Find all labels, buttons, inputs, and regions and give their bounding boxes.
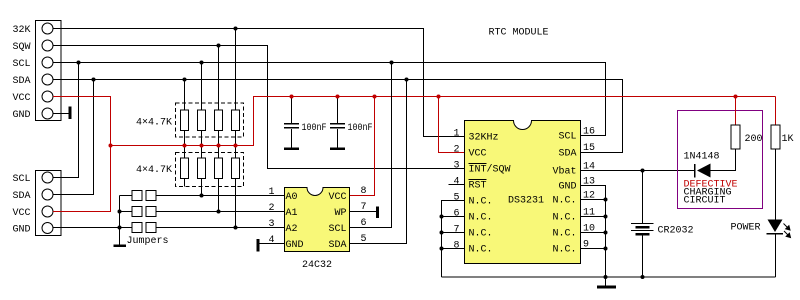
svg-text:5: 5 xyxy=(361,234,367,245)
wire DS3231 NC pin7 stub xyxy=(442,232,465,234)
wire jumper row1 to 24C32 A0 xyxy=(156,195,285,197)
diode D1 cathode bar xyxy=(694,164,696,178)
LED D2 triangle xyxy=(768,220,783,233)
svg-text:9: 9 xyxy=(583,240,589,251)
ground bar C1 xyxy=(284,148,299,151)
resistor RN1-B leads xyxy=(201,63,203,146)
svg-text:SCL: SCL xyxy=(12,59,30,70)
svg-text:1: 1 xyxy=(268,187,274,198)
resistor RN1-C leads xyxy=(218,46,220,146)
svg-text:4: 4 xyxy=(453,177,459,188)
svg-text:VCC: VCC xyxy=(328,192,346,203)
svg-text:1N4148: 1N4148 xyxy=(684,152,720,163)
resistor RN2-B body xyxy=(198,158,206,179)
wire jumper row2 to 24C32 A1 xyxy=(156,211,285,213)
svg-text:1K: 1K xyxy=(782,134,794,145)
wire jumper row2 left xyxy=(120,211,133,213)
resistor RN2-A leads xyxy=(184,146,186,187)
svg-text:32K: 32K xyxy=(12,25,30,36)
svg-text:100nF: 100nF xyxy=(348,123,373,134)
capacitor C1 plates xyxy=(284,123,299,125)
resistor RN2-A body xyxy=(181,158,189,179)
wire SCL net rail xyxy=(53,63,606,136)
jumper pads xyxy=(132,191,156,233)
svg-text:7: 7 xyxy=(453,225,459,236)
svg-text:Vbat: Vbat xyxy=(552,166,576,178)
svg-text:A2: A2 xyxy=(286,224,298,235)
svg-text:N.C.: N.C. xyxy=(469,213,493,224)
capacitor C1 top lead xyxy=(291,97,293,124)
svg-text:GND: GND xyxy=(558,182,576,193)
wire 24C32 GND stub xyxy=(260,243,285,245)
IC U1 left pin numbers xyxy=(453,129,459,252)
svg-text:INT/SQW: INT/SQW xyxy=(469,164,511,176)
svg-text:N.C.: N.C. xyxy=(552,245,576,256)
svg-text:DS3231: DS3231 xyxy=(508,196,544,207)
resistor RN2-D leads xyxy=(235,146,237,228)
resistor R1K body xyxy=(771,125,780,149)
ground bar 24C32 GND terminator xyxy=(257,239,260,252)
LED D2 bottom lead xyxy=(775,234,777,277)
svg-text:GND: GND xyxy=(12,225,30,236)
wire 24C32 SDA riser xyxy=(350,80,407,244)
svg-text:N.C.: N.C. xyxy=(469,245,493,256)
IC U2 right pin labels xyxy=(328,192,346,251)
svg-text:VCC: VCC xyxy=(12,208,30,219)
svg-text:VCC: VCC xyxy=(469,149,487,160)
svg-text:POWER: POWER xyxy=(731,223,761,234)
svg-text:32KHz: 32KHz xyxy=(469,133,499,144)
svg-text:10: 10 xyxy=(583,224,595,235)
wire J2 SDA riser xyxy=(53,80,94,195)
svg-text:6: 6 xyxy=(453,209,459,220)
connector J2 labels xyxy=(12,174,30,236)
wire DS3231 NC pin10 stub xyxy=(581,232,606,234)
capacitor C1 bottom lead xyxy=(291,129,293,148)
svg-text:VCC: VCC xyxy=(12,93,30,104)
junction dots black xyxy=(77,27,645,280)
capacitor C2 plates xyxy=(330,123,345,125)
resistor RN1-D body xyxy=(232,110,240,131)
svg-text:SDA: SDA xyxy=(558,149,576,160)
IC U1 right pin labels xyxy=(552,132,576,256)
svg-text:N.C.: N.C. xyxy=(469,197,493,208)
resistor RN2-C body xyxy=(215,158,223,179)
svg-text:1: 1 xyxy=(453,129,459,140)
IC U1 notch xyxy=(514,120,531,122)
LED D2 cathode bar xyxy=(767,233,784,234)
connector J2 pin circles xyxy=(42,172,53,234)
svg-text:2: 2 xyxy=(268,203,274,214)
resistor RN1-C body xyxy=(215,110,223,131)
ground symbol bottom rail xyxy=(605,277,607,286)
wire DS3231 right GND/NC bus xyxy=(581,186,606,278)
connector J1 pin circles xyxy=(42,23,53,119)
svg-text:RST: RST xyxy=(469,181,487,192)
ground symbol under jumpers xyxy=(114,245,127,248)
svg-text:13: 13 xyxy=(583,177,595,188)
wire DS3231 NC pin6 stub xyxy=(442,216,465,218)
wire 24C32 SCL riser xyxy=(350,63,392,228)
ground bar J1 GND xyxy=(69,107,72,120)
svg-text:CIRCUIT: CIRCUIT xyxy=(684,196,726,207)
svg-text:14: 14 xyxy=(583,162,595,173)
svg-text:SCL: SCL xyxy=(12,174,30,185)
svg-text:SDA: SDA xyxy=(328,240,346,251)
overline RST xyxy=(469,179,487,180)
wire DS3231 NC pin12 stub xyxy=(581,199,606,201)
wire 24C32 WP stub xyxy=(350,211,377,213)
LED D2 arrows xyxy=(784,224,791,238)
battery B1 bottom lead xyxy=(642,236,644,278)
svg-text:2: 2 xyxy=(453,145,459,156)
overline INT xyxy=(469,163,487,164)
svg-text:11: 11 xyxy=(583,208,595,219)
resistor network RN1 dashed box xyxy=(176,103,244,137)
wire SQW net to INT/SQW pin3 xyxy=(53,46,465,169)
svg-text:24C32: 24C32 xyxy=(302,260,332,271)
resistor network RN2 dashed box xyxy=(176,153,244,187)
svg-text:SDA: SDA xyxy=(12,76,30,87)
svg-text:5: 5 xyxy=(453,193,459,204)
wire DS3231 left NC bus xyxy=(442,201,465,278)
wire jumper ground bus xyxy=(119,196,121,245)
resistor RN2-B leads xyxy=(201,146,203,196)
wire VCC red pull-up rail xyxy=(111,97,776,146)
svg-text:RTC MODULE: RTC MODULE xyxy=(489,28,549,39)
svg-text:8: 8 xyxy=(453,241,459,252)
svg-text:16: 16 xyxy=(583,127,595,138)
svg-text:GND: GND xyxy=(12,110,30,121)
wire J2 GND to jumpers row3 xyxy=(53,227,132,229)
IC U2 notch xyxy=(308,187,323,189)
IC U2 24C32 body xyxy=(285,188,350,252)
svg-text:15: 15 xyxy=(583,143,595,154)
resistor RN1-B body xyxy=(198,110,206,131)
svg-text:4×4.7K: 4×4.7K xyxy=(136,118,172,129)
svg-text:N.C.: N.C. xyxy=(552,229,576,240)
svg-text:7: 7 xyxy=(361,202,367,213)
diode D1 triangle xyxy=(697,164,711,178)
resistor R1K top lead red xyxy=(775,97,777,126)
svg-text:CR2032: CR2032 xyxy=(658,226,694,237)
wire J1 GND stub xyxy=(53,113,69,115)
wire DS3231 NC pin11 stub xyxy=(581,216,606,218)
wire SDA net rail xyxy=(53,80,623,153)
wire bottom ground rail xyxy=(442,276,776,278)
svg-text:N.C.: N.C. xyxy=(552,196,576,207)
wire VCC red drop to 24C32 pin8 xyxy=(350,97,375,196)
svg-text:4: 4 xyxy=(268,235,274,246)
wire VCC red drop to DS3231 pin2 xyxy=(439,97,465,153)
defective charging circuit box xyxy=(678,111,763,209)
ground bar 24C32 WP terminator xyxy=(376,207,379,219)
svg-text:3: 3 xyxy=(453,161,459,172)
svg-text:N.C.: N.C. xyxy=(469,229,493,240)
svg-text:200: 200 xyxy=(745,134,763,145)
wire VCC red net (J1 to J2) xyxy=(53,97,111,212)
resistor RN1-A body xyxy=(181,110,189,131)
wire jumper row3 to 24C32 A2 xyxy=(156,227,285,229)
svg-text:A1: A1 xyxy=(286,208,298,219)
svg-text:A0: A0 xyxy=(286,192,298,203)
svg-text:GND: GND xyxy=(286,240,304,251)
svg-text:SQW: SQW xyxy=(12,42,30,53)
battery B1 plates xyxy=(631,223,654,224)
IC U1 DS3231 body xyxy=(465,121,581,264)
wire Vbat net pin14 to diode xyxy=(581,170,695,172)
wire jumper row1 left xyxy=(120,195,133,197)
battery B1 top lead xyxy=(642,171,644,224)
resistor RN2-C leads xyxy=(218,146,220,212)
svg-text:3: 3 xyxy=(268,219,274,230)
capacitor C2 bottom lead xyxy=(337,129,339,148)
wire J2 SCL riser xyxy=(53,63,79,178)
wire DS3231 NC pin9 stub xyxy=(581,248,606,250)
wire R1K to LED xyxy=(775,149,777,220)
resistor R200 body xyxy=(731,125,740,149)
wire diode to R200 xyxy=(711,149,736,171)
resistor R200 top lead red xyxy=(735,97,737,126)
resistor RN1-D leads xyxy=(235,29,237,146)
svg-text:4×4.7K: 4×4.7K xyxy=(136,165,172,176)
svg-text:SCL: SCL xyxy=(558,132,576,143)
svg-text:Jumpers: Jumpers xyxy=(127,236,169,247)
svg-text:6: 6 xyxy=(361,218,367,229)
svg-text:12: 12 xyxy=(583,191,595,202)
svg-text:WP: WP xyxy=(334,208,346,219)
connector J1 body xyxy=(36,21,62,121)
ground bar C2 xyxy=(330,148,345,151)
wire DS3231 RST stub xyxy=(449,184,465,186)
svg-text:8: 8 xyxy=(361,186,367,197)
capacitor C2 top lead xyxy=(337,97,339,124)
IC U2 pin numbers xyxy=(268,187,274,246)
junction dots red xyxy=(109,95,738,148)
resistor RN1-A leads xyxy=(184,80,186,146)
connector J1 labels xyxy=(12,25,30,121)
wire 32K net xyxy=(53,29,465,137)
svg-text:N.C.: N.C. xyxy=(552,213,576,224)
wire DS3231 NC pin8 stub xyxy=(442,248,465,250)
svg-text:SCL: SCL xyxy=(328,224,346,235)
resistor RN2-D body xyxy=(232,158,240,179)
connector J2 body xyxy=(36,171,62,236)
svg-text:SDA: SDA xyxy=(12,191,30,202)
svg-text:100nF: 100nF xyxy=(302,123,327,134)
